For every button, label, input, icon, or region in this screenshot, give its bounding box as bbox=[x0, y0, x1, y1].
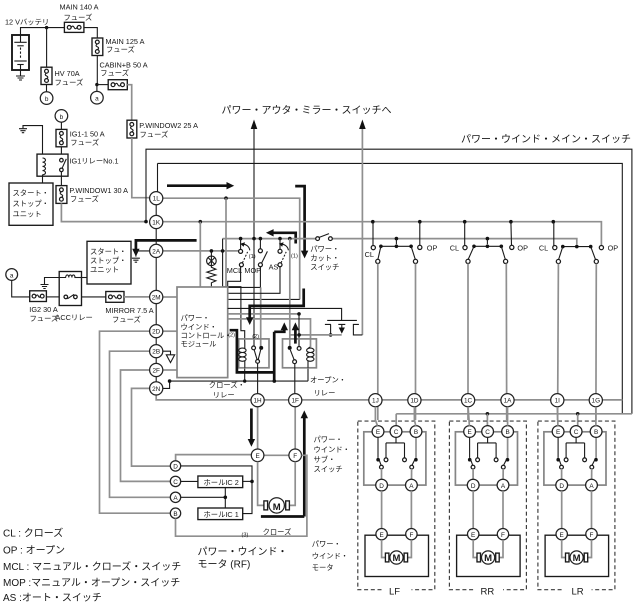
svg-text:1F: 1F bbox=[291, 398, 299, 405]
svg-text:ストップ・: ストップ・ bbox=[90, 256, 126, 265]
svg-text:パワー・ウインド・: パワー・ウインド・ bbox=[198, 546, 288, 558]
svg-text:(2): (2) bbox=[228, 333, 235, 339]
svg-text:B: B bbox=[414, 429, 418, 436]
svg-text:フューズ: フューズ bbox=[55, 78, 84, 87]
svg-text:パワー・アウタ・ミラー・スイッチへ: パワー・アウタ・ミラー・スイッチへ bbox=[222, 105, 392, 117]
svg-text:b: b bbox=[45, 96, 49, 103]
svg-text:C: C bbox=[394, 429, 399, 436]
svg-text:CL: CL bbox=[365, 250, 374, 259]
svg-text:MOP: MOP bbox=[244, 266, 261, 275]
svg-text:F: F bbox=[293, 453, 297, 460]
svg-text:12 Vバッテリ: 12 Vバッテリ bbox=[5, 18, 49, 27]
svg-text:1D: 1D bbox=[410, 398, 419, 405]
svg-text:E: E bbox=[379, 532, 383, 539]
svg-text:E: E bbox=[255, 453, 259, 460]
svg-text:1I: 1I bbox=[555, 398, 561, 405]
svg-text:リレー: リレー bbox=[213, 391, 235, 400]
svg-text:2D: 2D bbox=[152, 329, 161, 336]
svg-text:A: A bbox=[409, 483, 414, 490]
svg-text:D: D bbox=[379, 483, 384, 490]
svg-text:C: C bbox=[173, 479, 178, 486]
svg-text:b: b bbox=[60, 114, 64, 121]
svg-text:ユニット: ユニット bbox=[90, 265, 119, 274]
svg-text:1J: 1J bbox=[372, 398, 379, 405]
svg-text:MCL: MCL bbox=[227, 266, 242, 275]
svg-text:1H: 1H bbox=[254, 398, 263, 405]
svg-text:コントロール・: コントロール・ bbox=[181, 331, 232, 340]
svg-text:ホールIC 1: ホールIC 1 bbox=[204, 510, 239, 519]
svg-text:1K: 1K bbox=[152, 219, 161, 226]
svg-text:1G: 1G bbox=[592, 398, 601, 405]
svg-text:2M: 2M bbox=[152, 294, 161, 301]
svg-text:1A: 1A bbox=[504, 398, 513, 405]
svg-text:モータ: モータ bbox=[312, 563, 334, 572]
svg-text:パワー・: パワー・ bbox=[314, 435, 343, 444]
svg-text:1C: 1C bbox=[464, 398, 473, 405]
svg-text:CL: CL bbox=[539, 243, 548, 252]
svg-text:D: D bbox=[173, 464, 178, 471]
svg-text:1L: 1L bbox=[153, 196, 161, 203]
svg-text:クローズ・: クローズ・ bbox=[209, 380, 245, 389]
svg-text:サブ・: サブ・ bbox=[314, 455, 336, 464]
svg-text:LR: LR bbox=[572, 587, 584, 598]
svg-text:スタート・: スタート・ bbox=[13, 188, 49, 197]
svg-text:2A: 2A bbox=[152, 248, 161, 255]
svg-text:ホールIC 2: ホールIC 2 bbox=[204, 478, 239, 487]
svg-text:CL : クローズ: CL : クローズ bbox=[3, 526, 63, 539]
svg-text:クローズ: クローズ bbox=[263, 528, 292, 537]
svg-text:LF: LF bbox=[389, 587, 400, 598]
svg-text:OP: OP bbox=[517, 243, 528, 252]
svg-text:AS: AS bbox=[269, 263, 279, 272]
svg-text:パワー・: パワー・ bbox=[181, 314, 210, 323]
svg-text:スタート・: スタート・ bbox=[90, 247, 126, 256]
svg-text:RR: RR bbox=[481, 587, 495, 598]
svg-text:ウインド・: ウインド・ bbox=[312, 551, 348, 560]
svg-text:P.WINDOW2 25 A: P.WINDOW2 25 A bbox=[139, 121, 198, 130]
svg-text:モジュール: モジュール bbox=[181, 340, 217, 349]
svg-text:(2): (2) bbox=[252, 334, 259, 340]
svg-text:フューズ: フューズ bbox=[70, 195, 99, 204]
svg-text:(1): (1) bbox=[249, 254, 256, 260]
svg-text:(1): (1) bbox=[291, 253, 298, 259]
svg-text:ACCリレー: ACCリレー bbox=[56, 313, 93, 322]
svg-text:B: B bbox=[173, 511, 177, 518]
svg-text:AS :オート・スイッチ: AS :オート・スイッチ bbox=[3, 592, 102, 603]
svg-text:スイッチ: スイッチ bbox=[314, 465, 343, 474]
svg-text:a: a bbox=[10, 272, 14, 279]
svg-text:MAIN 140 A: MAIN 140 A bbox=[60, 3, 99, 12]
svg-text:フューズ: フューズ bbox=[100, 69, 129, 78]
svg-text:HV 70A: HV 70A bbox=[55, 69, 80, 78]
svg-text:E: E bbox=[376, 429, 380, 436]
svg-text:フューズ: フューズ bbox=[140, 130, 169, 139]
svg-text:(3): (3) bbox=[242, 533, 249, 539]
svg-text:カット・: カット・ bbox=[310, 253, 339, 262]
svg-text:M: M bbox=[393, 553, 401, 564]
svg-text:IG2 30 A: IG2 30 A bbox=[29, 305, 58, 314]
svg-text:CL: CL bbox=[450, 243, 459, 252]
svg-text:オープン・: オープン・ bbox=[310, 376, 346, 385]
svg-text:MOP :マニュアル・オープン・スイッチ: MOP :マニュアル・オープン・スイッチ bbox=[3, 577, 180, 589]
svg-text:OP : オープン: OP : オープン bbox=[3, 544, 65, 556]
svg-text:フューズ: フューズ bbox=[106, 45, 135, 54]
svg-text:リレー: リレー bbox=[314, 388, 336, 397]
svg-text:ウインド・: ウインド・ bbox=[314, 445, 350, 454]
svg-text:パワー・ウインド・メイン・スイッチ: パワー・ウインド・メイン・スイッチ bbox=[461, 133, 631, 145]
svg-text:M: M bbox=[273, 502, 281, 513]
svg-text:フューズ: フューズ bbox=[112, 315, 141, 324]
svg-text:パワー・: パワー・ bbox=[310, 244, 339, 253]
svg-text:a: a bbox=[95, 96, 99, 103]
svg-text:フューズ: フューズ bbox=[70, 138, 99, 147]
svg-text:2B: 2B bbox=[152, 349, 160, 356]
svg-text:ウインド・: ウインド・ bbox=[181, 322, 217, 331]
svg-text:IG1リレーNo.1: IG1リレーNo.1 bbox=[70, 157, 119, 166]
svg-text:OP: OP bbox=[427, 243, 438, 252]
svg-text:スイッチ: スイッチ bbox=[310, 262, 339, 271]
svg-text:MIRROR 7.5 A: MIRROR 7.5 A bbox=[105, 306, 153, 315]
svg-text:パワー・: パワー・ bbox=[312, 540, 341, 549]
svg-text:OP: OP bbox=[608, 243, 619, 252]
svg-text:フューズ: フューズ bbox=[64, 13, 93, 22]
svg-text:2N: 2N bbox=[152, 386, 161, 393]
svg-text:ユニット: ユニット bbox=[13, 210, 42, 219]
svg-text:F: F bbox=[409, 532, 413, 539]
svg-text:A: A bbox=[173, 495, 178, 502]
svg-text:ストップ・: ストップ・ bbox=[13, 199, 49, 208]
svg-text:モータ (RF): モータ (RF) bbox=[198, 559, 251, 571]
svg-text:2F: 2F bbox=[152, 367, 160, 374]
svg-text:MCL : マニュアル・クローズ・スイッチ: MCL : マニュアル・クローズ・スイッチ bbox=[3, 560, 181, 573]
svg-text:フューズ: フューズ bbox=[30, 314, 59, 323]
